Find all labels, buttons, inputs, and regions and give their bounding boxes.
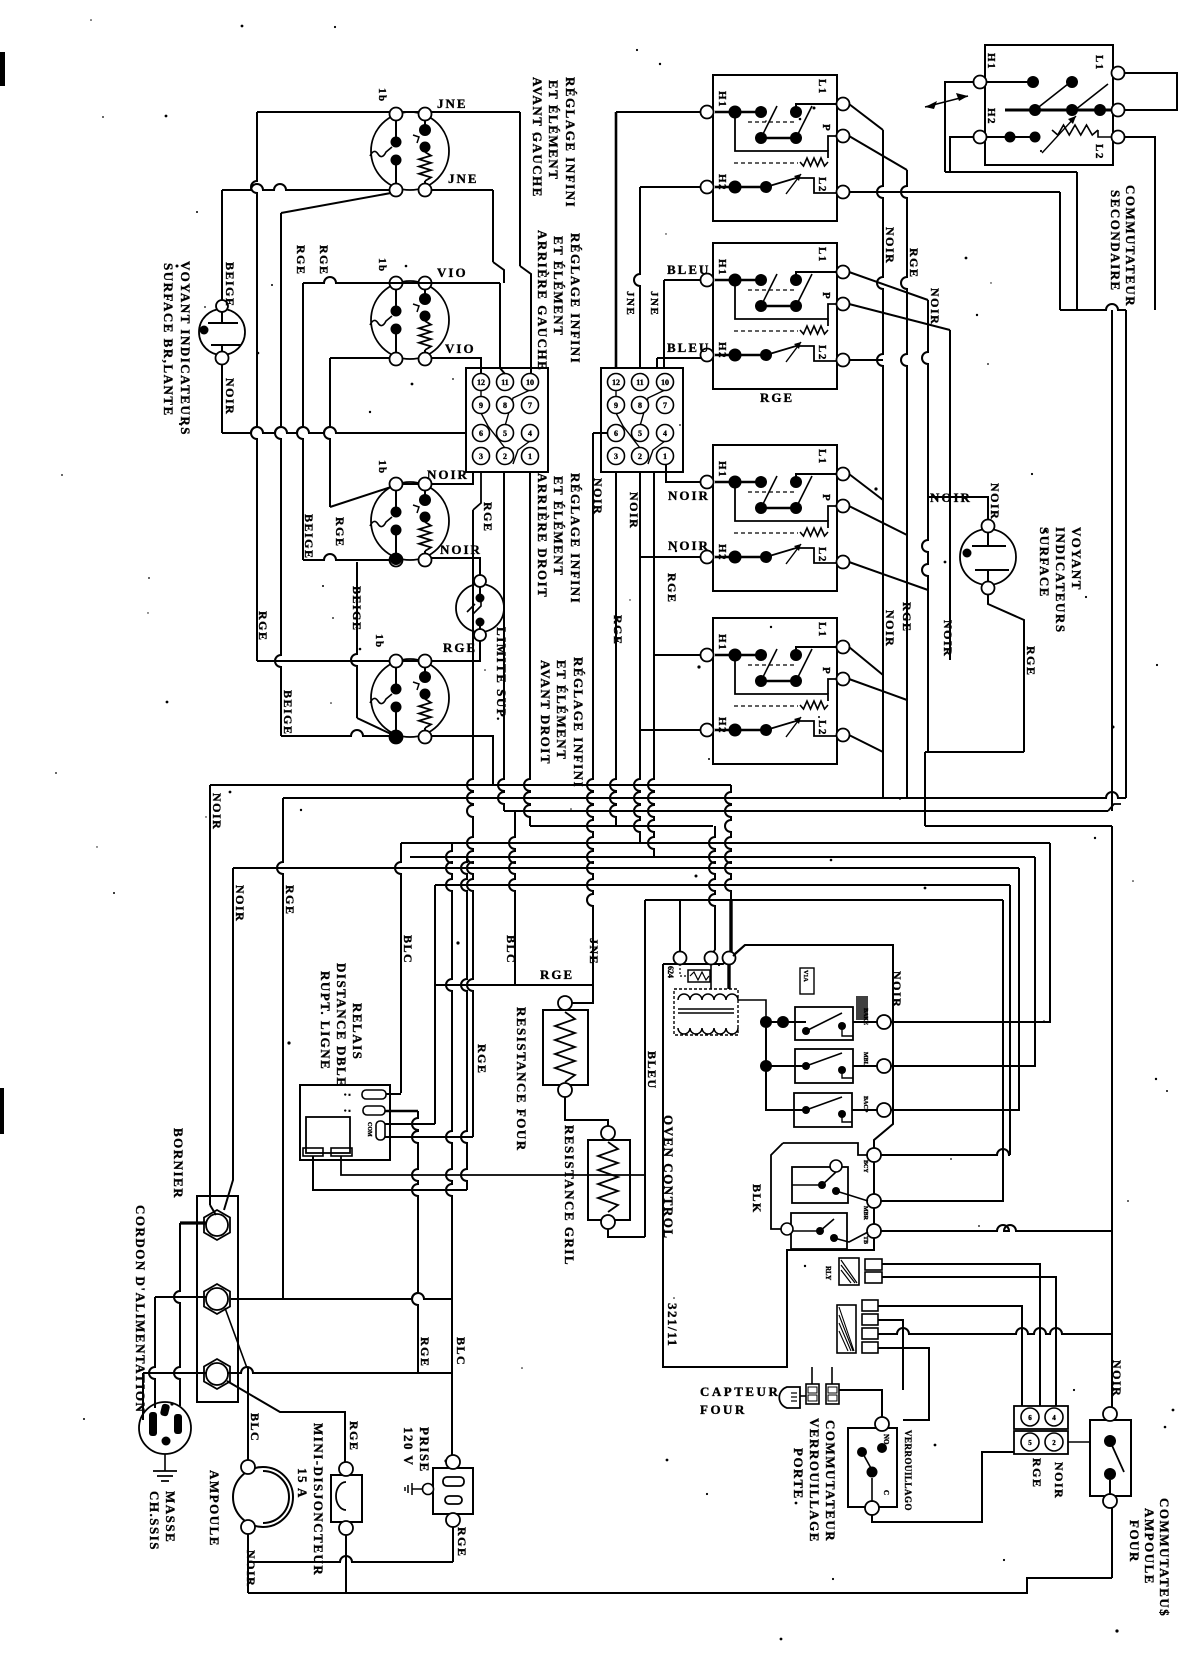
svg-text:RGE: RGE — [540, 967, 574, 982]
svg-text:1: 1 — [663, 452, 667, 461]
wire L1 sec right — [1125, 73, 1177, 110]
svg-text:9: 9 — [614, 401, 618, 410]
svg-text:NOIR: NOIR — [427, 467, 469, 482]
wire x680 oven — [679, 900, 681, 952]
wire x645 bleu — [644, 900, 646, 1237]
oven lower contacts group — [771, 1143, 868, 1229]
svg-text:4: 4 — [1052, 1414, 1056, 1422]
svg-text:H1: H1 — [716, 259, 728, 276]
wire BLEU B2 H1 — [663, 280, 665, 368]
wire x210 to bornier — [209, 785, 211, 1205]
svg-text:CORDON D'ALIMENTATION: CORDON D'ALIMENTATION — [133, 1205, 148, 1413]
svg-text:NOIR: NOIR — [1110, 1360, 1124, 1397]
bus L4 right — [925, 825, 1112, 827]
wire relay slot2 out RGE — [385, 1110, 418, 1112]
svg-text:RGE: RGE — [1030, 1458, 1044, 1489]
svg-text:1b: 1b — [376, 460, 388, 475]
svg-text:5: 5 — [503, 429, 507, 438]
svg-text:COMMUTATEUR: COMMUTATEUR — [823, 1420, 838, 1542]
wire B4 H1 feed — [654, 654, 701, 656]
infinite switch S4 avant droit — [370, 655, 449, 744]
svg-text:NOIR: NOIR — [223, 378, 237, 415]
wire TB1 bottom to S3 TR — [431, 472, 473, 484]
svg-text:L1: L1 — [816, 622, 828, 638]
svg-text:L1: L1 — [816, 79, 828, 95]
wire TB1 col1 drop — [473, 472, 481, 510]
wire lamp bottom noir — [221, 364, 223, 433]
element switch box B4 — [701, 618, 850, 764]
wire nut2 diag to ampoule — [225, 1308, 247, 1368]
indicator lamp L1 voyant surface brulante — [199, 300, 245, 365]
svg-text:RGE: RGE — [418, 1337, 432, 1368]
wire y310 cross — [1060, 304, 1126, 310]
svg-text:6: 6 — [479, 429, 483, 438]
wire y752 — [925, 751, 1024, 753]
svg-text:ARRIÈRE GAUCHE: ARRIÈRE GAUCHE — [535, 230, 550, 371]
bus L6 — [410, 856, 1035, 858]
svg-text:3: 3 — [479, 452, 483, 461]
svg-text:MBL: MBL — [862, 1052, 868, 1066]
svg-text:2: 2 — [638, 452, 642, 461]
svg-text:PORTE: PORTE — [791, 1448, 806, 1500]
svg-text:RGE: RGE — [760, 390, 794, 405]
wire to res four top — [572, 985, 593, 1003]
svg-text:• ▪: • ▪ — [344, 1091, 351, 1099]
wire x1060 down — [1059, 192, 1061, 310]
svg-text:NOIR: NOIR — [988, 483, 1002, 520]
wire res four bottom — [565, 1097, 608, 1130]
svg-text:VERROUILLAGE: VERROUILLAGE — [807, 1418, 822, 1543]
wire noir to TB1 — [222, 427, 466, 433]
svg-text:RGE: RGE — [294, 245, 308, 276]
wire x515 BLC — [509, 811, 515, 985]
wire transformer out — [738, 1000, 766, 1022]
wire nut2 right to prise — [231, 1293, 452, 1299]
terminal fill S4 BL — [390, 731, 402, 743]
svg-text:BLC: BLC — [504, 935, 518, 964]
wire x1112 long down — [1111, 310, 1113, 811]
wire outlet bottom — [452, 1527, 454, 1562]
wire RGE vert x907 — [901, 170, 907, 798]
wire K3 to T3 — [852, 1109, 877, 1111]
wire relay tab left down — [313, 1156, 467, 1190]
wire VIO S2 top — [303, 277, 500, 283]
svg-text:NOIR: NOIR — [928, 288, 942, 325]
bornier terminal strip — [197, 1196, 238, 1402]
svg-text:3: 3 — [614, 452, 618, 461]
svg-text:NOIR: NOIR — [883, 227, 897, 264]
small relay label box — [800, 968, 814, 994]
wire T5 out — [881, 900, 1003, 1201]
wire S3 top jumper — [402, 483, 419, 485]
wire B4 L2 diagonal — [849, 735, 883, 752]
svg-text:ET ÉLÉMENT: ET ÉLÉMENT — [546, 80, 561, 180]
svg-text:12: 12 — [612, 378, 620, 387]
indicator lamp L2 voyant surface — [960, 520, 1016, 595]
svg-text:LIMITE SUP.: LIMITE SUP. — [494, 627, 509, 722]
svg-text:NOIR: NOIR — [627, 492, 641, 529]
element switch box B3 — [701, 445, 850, 591]
wire B3 L2 diagonal — [849, 562, 928, 590]
svg-text:RELAIS: RELAIS — [350, 1003, 365, 1060]
svg-text:5: 5 — [1028, 1439, 1032, 1447]
svg-text:L2: L2 — [816, 345, 828, 361]
wire x452 outlet feed BLC — [446, 843, 452, 1455]
svg-text:L1: L1 — [816, 449, 828, 465]
svg-text:MASSE: MASSE — [163, 1491, 178, 1543]
wire T6 out — [881, 1225, 1112, 1231]
connector A rly — [839, 1258, 882, 1285]
wire B3 P diagonal — [849, 506, 907, 535]
left edge smudges — [0, 52, 5, 86]
svg-text:P: P — [820, 494, 832, 502]
wire VL1 to S4 H1 — [257, 660, 390, 662]
wire connA w2 — [882, 1277, 1056, 1406]
wire S1 BL diagonal to VL2 — [281, 193, 391, 213]
wire B3 H2 feed — [640, 556, 701, 558]
svg-text:BLC: BLC — [454, 1337, 468, 1366]
svg-text:H1: H1 — [716, 634, 728, 651]
svg-text:L2: L2 — [1093, 144, 1105, 160]
capteur four sensor — [779, 1367, 832, 1408]
ampoule lamp — [233, 1460, 293, 1534]
wire lamp top — [221, 190, 223, 300]
svg-text:NOIR: NOIR — [244, 1550, 258, 1587]
wire lamp2 top noir — [928, 497, 988, 520]
wire nut3 diag to breaker — [227, 1381, 345, 1462]
svg-text:RGE: RGE — [481, 502, 495, 533]
commutateur verrouillage porte — [848, 1417, 897, 1515]
svg-text:9: 9 — [479, 401, 483, 410]
svg-text:AVANT GAUCHE: AVANT GAUCHE — [530, 77, 545, 198]
wire TB2 col3 drop — [648, 472, 654, 857]
wire TB2 col1 drop — [610, 472, 616, 826]
svg-text:CH.SSIS: CH.SSIS — [147, 1491, 162, 1551]
wire H2 sec left — [950, 137, 973, 172]
svg-text:JNE: JNE — [624, 291, 636, 316]
svg-text:RGE: RGE — [665, 573, 679, 604]
svg-text:RGE: RGE — [283, 885, 297, 916]
wire B2 L2 down — [849, 359, 883, 361]
svg-text:6: 6 — [1028, 1414, 1032, 1422]
svg-text:1b: 1b — [376, 258, 388, 273]
wire TB2 col2 up to B1 H2 — [634, 187, 640, 368]
svg-text:RESISTANCE GRIL: RESISTANCE GRIL — [562, 1125, 577, 1266]
svg-text:5: 5 — [638, 429, 642, 438]
relay distance dble rupt ligne — [300, 1085, 390, 1160]
bus L7 — [233, 867, 1019, 869]
wire B2 L1 diagonal — [849, 272, 928, 300]
wire oven top diag — [733, 945, 745, 956]
svg-text:VERROUILLAGO: VERROUILLAGO — [903, 1430, 913, 1511]
svg-text:H1: H1 — [716, 91, 728, 108]
wire lamp2 bottom — [988, 594, 1024, 752]
wire vert x950 — [949, 330, 951, 660]
verrouillage connector pair — [806, 1384, 839, 1404]
terminal block TB2 — [601, 368, 683, 472]
svg-text:4: 4 — [663, 429, 667, 438]
svg-text:NOIR: NOIR — [890, 971, 904, 1008]
svg-text:RGE: RGE — [455, 1527, 469, 1558]
svg-text:120 V: 120 V — [401, 1427, 416, 1466]
svg-text:2: 2 — [503, 452, 507, 461]
svg-text:COM: COM — [366, 1122, 372, 1137]
wire NOIR vert x928 — [922, 300, 928, 752]
commutateur secondaire box — [974, 45, 1125, 165]
svg-text:1b: 1b — [376, 88, 388, 103]
wire TB1 col2 drop from VIO — [500, 283, 505, 374]
svg-text:AMPOULE: AMPOULE — [1142, 1508, 1157, 1585]
svg-text:MBR: MBR — [862, 1206, 868, 1221]
svg-text:C: C — [882, 1490, 890, 1495]
svg-text:VOYANT INDICATEURS: VOYANT INDICATEURS — [178, 261, 193, 436]
oven control box outline — [663, 945, 893, 1367]
svg-text:VOYANT: VOYANT — [1069, 527, 1084, 591]
oven lower contact K5 — [781, 1213, 868, 1249]
wire VL5 vertical beige — [351, 562, 357, 718]
infinite switch S1 avant gauche — [370, 108, 449, 197]
svg-text:NOIR: NOIR — [883, 610, 897, 647]
svg-text:7: 7 — [528, 401, 532, 410]
ground chassis — [164, 1454, 166, 1471]
wire B1 P diagonal — [849, 136, 907, 170]
element switch box B2 — [701, 243, 850, 389]
wire relay com out b — [385, 1136, 473, 1138]
wire verrou to latch — [839, 1390, 882, 1418]
wire x1112 through oven zone — [1111, 826, 1113, 1410]
wire nut3 right — [227, 1367, 452, 1373]
svg-text:BLEU: BLEU — [645, 1051, 659, 1090]
svg-text:MINI-DISJONCTEUR: MINI-DISJONCTEUR — [311, 1423, 326, 1576]
svg-text:RÉGLAGE INFINI: RÉGLAGE INFINI — [568, 473, 583, 604]
wire x1126 down to bus — [1125, 310, 1127, 798]
svg-text:RGE: RGE — [317, 245, 331, 276]
svg-text:10: 10 — [526, 378, 534, 387]
bus L4 left — [530, 825, 713, 827]
svg-text:RGE: RGE — [333, 517, 347, 548]
svg-text:COMMUTATEUR: COMMUTATEUR — [1123, 185, 1138, 307]
wire VL2 to S4 BL — [281, 730, 390, 736]
wire BLEU B2 H2 — [656, 358, 658, 368]
svg-text:RGE: RGE — [1024, 646, 1038, 677]
svg-text:FOUR: FOUR — [700, 1402, 747, 1417]
arrow to secondary commutator — [925, 96, 968, 107]
svg-text:8: 8 — [638, 401, 642, 410]
wire VL3 vertical S2TL to S3BL — [297, 283, 303, 560]
small label block 2 — [856, 996, 868, 1020]
wire T4 out — [881, 1149, 1010, 1155]
svg-text:H2: H2 — [716, 544, 728, 561]
svg-text:L1: L1 — [1093, 55, 1105, 71]
svg-text:RÉGLAGE INFINI: RÉGLAGE INFINI — [563, 77, 578, 208]
svg-text:P: P — [820, 667, 832, 675]
wire B4 P diagonal — [849, 679, 907, 700]
infinite switch S2 arriere gauche — [370, 277, 449, 366]
svg-text:BEIGE: BEIGE — [223, 262, 237, 308]
oven relay contact K1 — [760, 1007, 853, 1040]
wire x766 k1k2 — [765, 1022, 767, 1066]
wire nut3 left — [143, 1372, 206, 1374]
svg-text:RESISTANCE FOUR: RESISTANCE FOUR — [514, 1007, 529, 1152]
wire x233 to bornier — [224, 868, 233, 1210]
wire H1 sec left — [945, 82, 973, 172]
bus L3 — [504, 810, 1108, 812]
svg-text:H2: H2 — [716, 342, 728, 359]
infinite switch S3 arriere droit — [370, 478, 449, 567]
wire NOIR vert x883 — [877, 130, 883, 798]
wire VL5 diagonal to S4 BL — [357, 718, 391, 734]
wire VL1 vertical — [251, 112, 257, 661]
wire B3 H1 feed — [666, 464, 701, 482]
svg-text:CAPTEUR: CAPTEUR — [700, 1384, 780, 1399]
svg-text:RÉGLAGE INFINI: RÉGLAGE INFINI — [571, 657, 586, 788]
wire K1 to T1 — [853, 1021, 877, 1023]
svg-text:RGE: RGE — [900, 602, 914, 633]
wire x1077 down — [1076, 172, 1078, 310]
svg-text:11: 11 — [636, 378, 644, 387]
svg-text:DISTANCE DBLE: DISTANCE DBLE — [334, 963, 349, 1087]
svg-text:RGE: RGE — [256, 611, 270, 642]
svg-text:• ▪: • ▪ — [344, 1107, 351, 1115]
wire B1 L1 diagonal — [849, 104, 883, 130]
svg-text:SECONDAIRE: SECONDAIRE — [1108, 190, 1123, 292]
wire B1 L2 to right — [849, 191, 1060, 193]
wire connB w4 — [878, 1348, 929, 1420]
wire K2 to T2 — [853, 1065, 877, 1067]
wire x731 oven bold — [725, 785, 731, 900]
bottom bus wire — [248, 1578, 1112, 1593]
svg-text:PRISE: PRISE — [417, 1427, 432, 1473]
svg-text:L2: L2 — [816, 547, 828, 563]
wire VL4 vertical — [324, 358, 330, 507]
wire L2 sec right — [1125, 137, 1155, 310]
svg-text:RGE: RGE — [907, 248, 921, 279]
wire S4 top jumper — [402, 660, 419, 662]
wire transformer feeds — [710, 964, 712, 989]
wire S4 BR drop — [431, 736, 493, 785]
svg-text:BLK: BLK — [750, 1184, 764, 1214]
wire relay slot1 out — [386, 1093, 401, 1095]
svg-text:JNE: JNE — [448, 171, 479, 186]
wire relay tab right down — [341, 1156, 645, 1175]
svg-text:INDICATEURS: INDICATEURS — [1053, 527, 1068, 634]
svg-text:JNE: JNE — [437, 96, 468, 111]
svg-text:FOUR: FOUR — [1127, 1520, 1142, 1563]
oven terminals right — [877, 1015, 891, 1029]
svg-text:ET ÉLÉMENT: ET ÉLÉMENT — [551, 476, 566, 576]
svg-text:ET ÉLÉMENT: ET ÉLÉMENT — [551, 236, 566, 336]
bus L5 — [401, 842, 1050, 844]
wire x925 down — [924, 752, 926, 826]
wire B3 L1 diagonal — [849, 474, 883, 500]
wire S1 top jumper — [402, 111, 419, 113]
oven relay contact K3 — [794, 1093, 852, 1127]
svg-text:2: 2 — [1052, 1439, 1056, 1447]
svg-text:AMPOULE: AMPOULE — [207, 1470, 222, 1547]
bus L9 — [645, 899, 1003, 901]
svg-text:NOIR: NOIR — [668, 538, 710, 553]
wire p2 right — [1068, 1441, 1090, 1443]
svg-text:L1: L1 — [816, 247, 828, 263]
wire TB1 col2 drop — [498, 472, 504, 811]
svg-text:624: 624 — [666, 966, 675, 978]
svg-text:NOIR: NOIR — [1052, 1462, 1066, 1499]
wire relay com out a — [385, 1123, 435, 1125]
element switch box B1 — [701, 75, 850, 221]
wire S2 BL to VL4 — [330, 357, 390, 359]
svg-text:NOIR: NOIR — [941, 620, 955, 657]
wire connB w1 — [878, 1306, 1022, 1406]
svg-text:P: P — [820, 124, 832, 132]
svg-text:VIO: VIO — [445, 341, 476, 356]
svg-text:BACP: BACP — [862, 1096, 868, 1113]
wire gril bottom — [608, 1229, 645, 1237]
wire S3 BL feed — [303, 554, 390, 560]
svg-text:L2: L2 — [816, 177, 828, 193]
wire T3 out — [891, 868, 1019, 1110]
oven fuse — [688, 970, 710, 982]
mini-disjoncteur — [331, 1462, 362, 1535]
wire latch bottom — [872, 1452, 1014, 1522]
svg-text:RUPT. LIGNE: RUPT. LIGNE — [318, 971, 333, 1070]
wire x766 k2k3 — [766, 1066, 806, 1110]
wire x715 oven — [709, 826, 715, 950]
wire x467 vert — [461, 857, 467, 1190]
svg-text:SURFACE BR,LANTE: SURFACE BR,LANTE — [161, 263, 176, 417]
svg-text:NO: NO — [882, 1434, 890, 1445]
svg-text:BORNIER: BORNIER — [171, 1128, 186, 1199]
svg-text:RGE: RGE — [475, 1044, 489, 1075]
svg-text:SURFACE: SURFACE — [1037, 527, 1052, 598]
bus L2 — [283, 792, 1126, 798]
svg-text:BLC: BLC — [401, 935, 415, 964]
wire x155 down — [149, 1297, 155, 1408]
wire connB w3 — [878, 1328, 1112, 1334]
svg-text:JNE: JNE — [648, 291, 660, 316]
svg-text:TB: TB — [862, 1236, 868, 1244]
wire B4 L1 diagonal — [849, 647, 883, 675]
wire JNE S1 to TB1 — [431, 111, 520, 113]
svg-text:RLY: RLY — [824, 1266, 832, 1280]
svg-text:NOIR: NOIR — [440, 542, 482, 557]
bus L8 — [435, 884, 1010, 886]
svg-text:NOIR: NOIR — [210, 793, 224, 830]
svg-text:NOIR: NOIR — [930, 490, 972, 505]
wire TB2 col1 up to B1 H1 — [615, 112, 618, 368]
svg-text:OVEN CONTROL: OVEN CONTROL — [661, 1115, 676, 1240]
bus L1 — [210, 784, 731, 786]
wire x595 JNE — [593, 432, 608, 434]
wire VL4 diagonal to S3 TL — [330, 487, 391, 507]
svg-text:12: 12 — [477, 378, 485, 387]
svg-text:P: P — [820, 292, 832, 300]
svg-text:RGE: RGE — [611, 615, 625, 646]
wire x1010 up — [1009, 885, 1011, 1155]
wire TB1 col3 drop — [524, 472, 530, 826]
svg-text:15 A: 15 A — [295, 1468, 310, 1499]
wire B4 H2 feed — [640, 729, 701, 731]
terminal pair P2 — [1014, 1431, 1068, 1454]
svg-text:8: 8 — [503, 401, 507, 410]
wire VL2 vertical — [275, 213, 281, 736]
svg-text:BLEU: BLEU — [667, 340, 710, 355]
svg-text:RÉGLAGE INFINI: RÉGLAGE INFINI — [568, 233, 583, 364]
svg-text:AVANT DROIT: AVANT DROIT — [538, 660, 553, 765]
svg-text:321/11: 321/11 — [665, 1303, 680, 1347]
terminal pair P1 — [1014, 1406, 1068, 1429]
connector B main — [837, 1300, 878, 1353]
terminal block TB1 — [466, 368, 548, 472]
